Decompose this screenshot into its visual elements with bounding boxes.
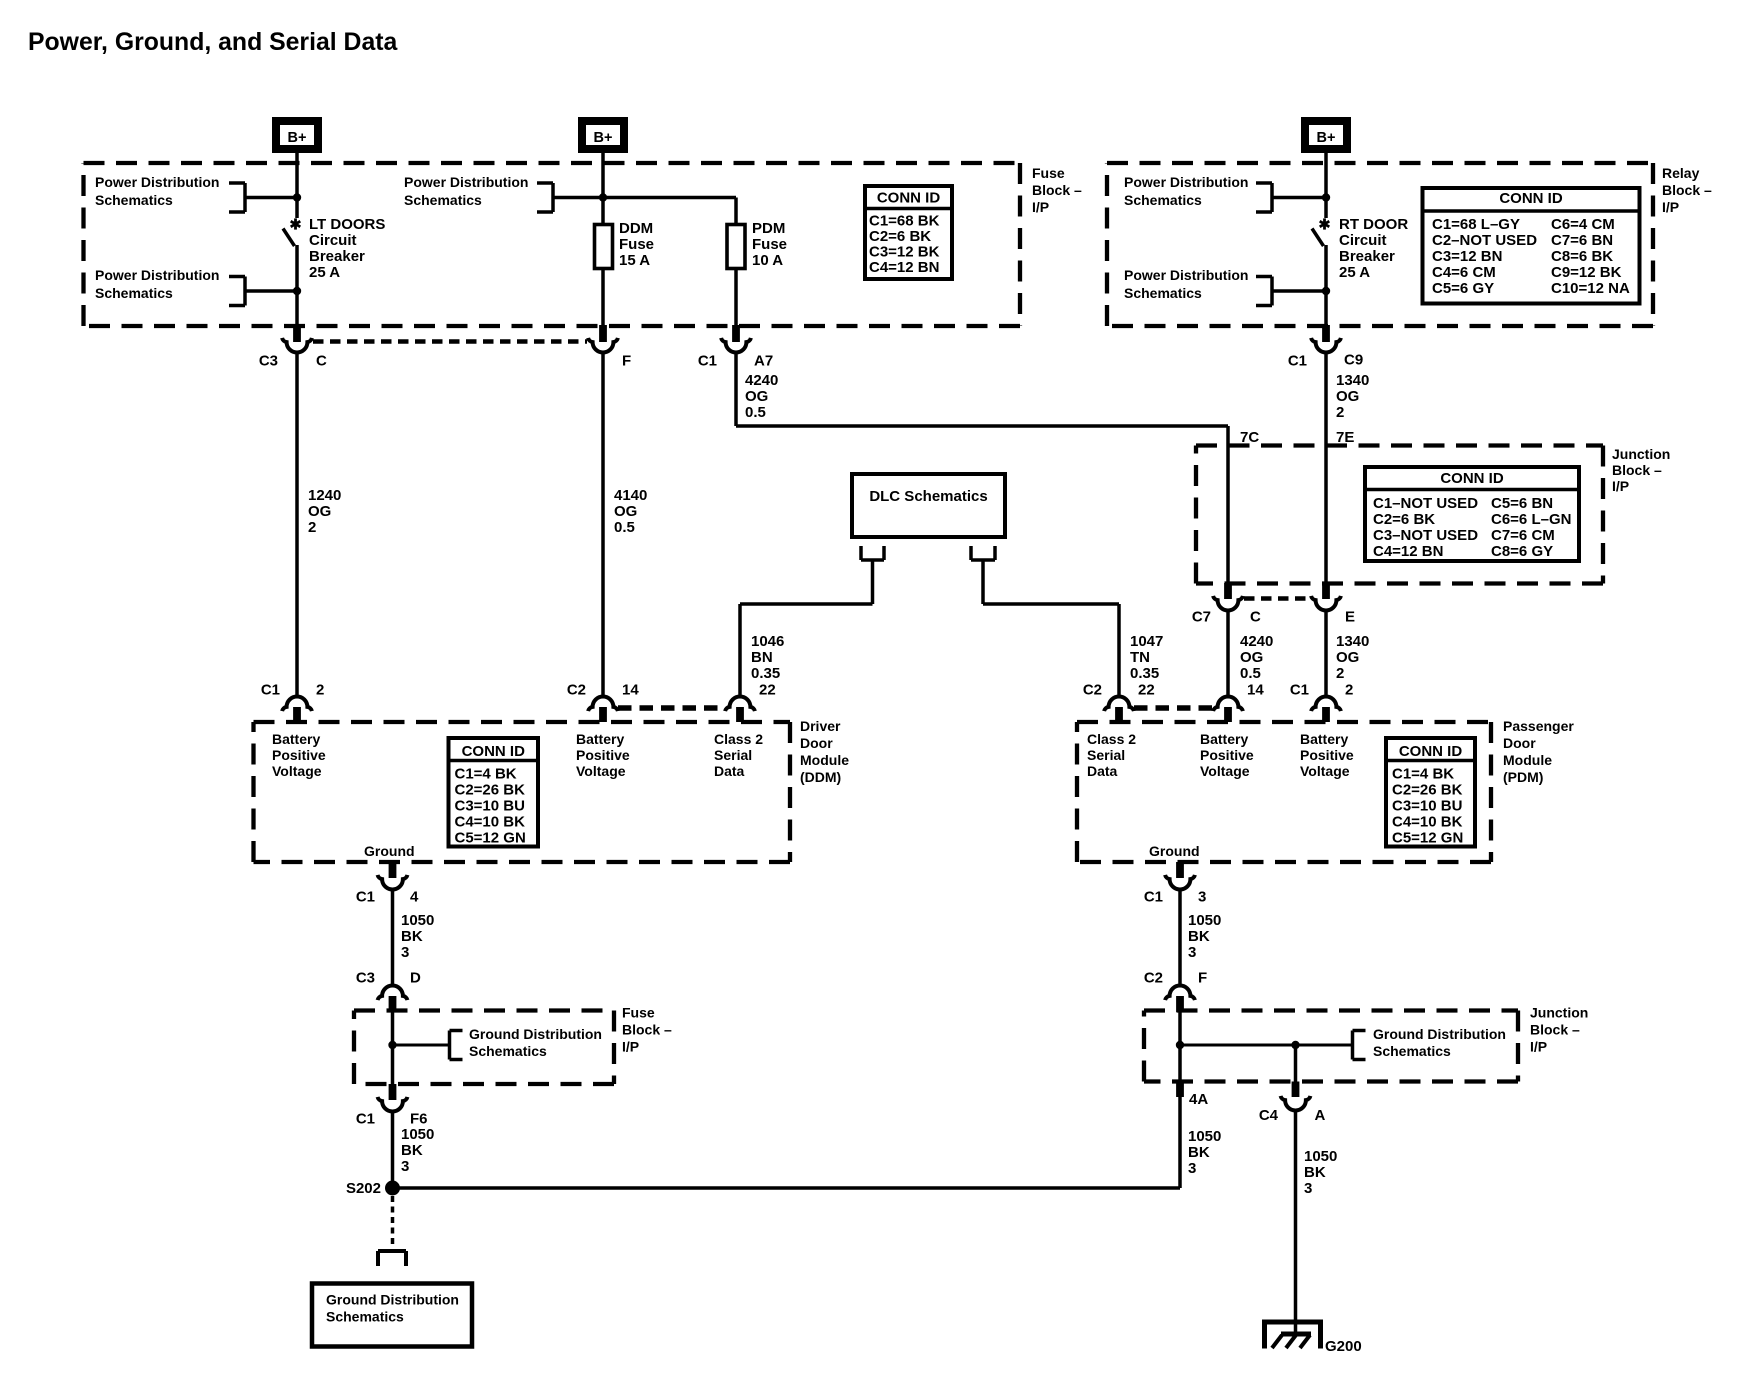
svg-text:Junction: Junction	[1612, 446, 1670, 462]
title	[28, 29, 397, 56]
svg-text:3: 3	[401, 944, 409, 961]
wire bracket3 feed line	[553, 198, 736, 225]
in-line dotted link 22 to 14 (PDM)	[1134, 705, 1213, 711]
connector C1/F6 (cup)	[378, 1097, 408, 1112]
svg-text:4140: 4140	[614, 487, 647, 504]
svg-text:Power Distribution: Power Distribution	[95, 267, 219, 283]
wire 4140 OG 0.5	[601, 353, 605, 696]
relay block label	[1662, 165, 1712, 215]
connector C1/A7 labels	[698, 353, 773, 370]
node: junction dot RT DOOR top	[1322, 193, 1330, 201]
svg-text:C2=6 BK: C2=6 BK	[869, 228, 931, 245]
connector E (stub)	[1322, 583, 1330, 599]
wire to ground distribution bracket (junction)	[1180, 1044, 1353, 1047]
svg-text:C5=12 GN: C5=12 GN	[455, 830, 526, 847]
svg-text:BN: BN	[751, 649, 773, 666]
wire B+ battery feed 2	[601, 153, 605, 163]
connector E (cup)	[1311, 596, 1341, 611]
svg-text:1240: 1240	[308, 487, 341, 504]
off-page ref: ground distribution schematics (junction block)	[1353, 1026, 1506, 1060]
wire 1340 OG 2 (lower)	[1324, 610, 1328, 696]
svg-text:Power Distribution: Power Distribution	[1124, 174, 1248, 190]
connector F (cup)	[588, 338, 618, 353]
in-line harness dotted link C to F	[313, 339, 587, 344]
wire 1046 BN 0.35 label	[751, 633, 784, 682]
svg-text:1050: 1050	[401, 1126, 434, 1143]
junction block label	[1612, 446, 1670, 494]
svg-text:Voltage: Voltage	[576, 763, 626, 779]
off-page ref: ground distribution schematics (fuse block)	[450, 1026, 602, 1060]
junction block I/P (dashed box)	[1196, 446, 1603, 584]
wire splice bus S202	[393, 1186, 1181, 1190]
svg-text:Schematics: Schematics	[326, 1309, 404, 1325]
svg-text:2: 2	[316, 682, 324, 699]
svg-text:CONN ID: CONN ID	[1499, 190, 1563, 207]
in-line dotted link 14 to 22 (DDM)	[618, 705, 725, 711]
fuse block I/P ground (dashed box)	[354, 1011, 614, 1085]
connector PDM pin 14 labels	[1247, 682, 1264, 699]
connector C1/3 (cup)	[1165, 875, 1195, 890]
svg-text:S202: S202	[346, 1180, 381, 1197]
svg-text:Circuit: Circuit	[309, 232, 357, 249]
svg-text:C1=68 L–GY: C1=68 L–GY	[1432, 216, 1520, 233]
connector DDM C2 pin 14 labels	[567, 682, 640, 699]
connector C4/A (cup)	[1281, 1096, 1311, 1111]
svg-text:3: 3	[1188, 1160, 1196, 1177]
connector F (stub)	[599, 325, 607, 342]
svg-text:2: 2	[308, 519, 316, 536]
ground G200	[1265, 1322, 1321, 1349]
svg-text:Breaker: Breaker	[309, 248, 365, 265]
DDM pin text class 2 serial data	[714, 731, 763, 779]
svg-text:Battery: Battery	[1200, 731, 1248, 747]
svg-text:C7: C7	[1192, 609, 1211, 626]
DLC schematics box	[852, 474, 1005, 537]
svg-text:C5=12 GN: C5=12 GN	[1392, 830, 1463, 847]
wire bracket2 to LT DOORS bottom	[245, 289, 297, 293]
svg-text:C10=12 NA: C10=12 NA	[1551, 280, 1630, 297]
node: junction dot junction block ground	[1176, 1041, 1184, 1049]
svg-text:C1: C1	[698, 353, 717, 370]
svg-text:1050: 1050	[1304, 1148, 1337, 1165]
connector C1/C9 (cup)	[1311, 338, 1341, 353]
wire 1047 TN 0.35 label	[1130, 633, 1163, 682]
svg-text:Serial: Serial	[1087, 747, 1125, 763]
connector C1/A7 (stub)	[732, 325, 740, 342]
svg-text:C3=12 BN: C3=12 BN	[1432, 248, 1502, 265]
svg-text:C: C	[316, 353, 327, 370]
svg-text:15 A: 15 A	[619, 252, 650, 269]
svg-text:C4=6 CM: C4=6 CM	[1432, 264, 1496, 281]
svg-text:25 A: 25 A	[309, 264, 340, 281]
svg-text:C1–NOT USED: C1–NOT USED	[1373, 495, 1478, 512]
connector DDM pin 22 (cup+stub)	[725, 696, 755, 722]
wire RT breaker to box bottom	[1324, 245, 1328, 326]
svg-text:Schematics: Schematics	[469, 1043, 547, 1059]
svg-text:C2=6 BK: C2=6 BK	[1373, 511, 1435, 528]
off-page ref: power distribution schematics (lower left)	[95, 267, 245, 306]
svg-text:Positive: Positive	[272, 747, 326, 763]
svg-text:0.5: 0.5	[1240, 665, 1261, 682]
svg-text:Power Distribution: Power Distribution	[1124, 267, 1248, 283]
svg-text:C4=10 BK: C4=10 BK	[1392, 814, 1463, 831]
svg-text:22: 22	[759, 682, 776, 699]
node: junction dot RT DOOR bottom	[1322, 287, 1330, 295]
svg-text:DLC Schematics: DLC Schematics	[869, 488, 987, 505]
svg-text:OG: OG	[1336, 388, 1359, 405]
svg-text:0.5: 0.5	[745, 404, 766, 421]
svg-text:Data: Data	[714, 763, 745, 779]
svg-text:Ground: Ground	[1149, 843, 1200, 859]
svg-text:C7=6 BN: C7=6 BN	[1551, 232, 1613, 249]
connector C1/4 (stub)	[389, 862, 397, 878]
wire B+2 down	[601, 163, 605, 198]
svg-text:C2=26 BK: C2=26 BK	[455, 782, 526, 799]
connector DDM pin 22 labels	[759, 682, 776, 699]
svg-text:BK: BK	[1188, 1144, 1210, 1161]
svg-text:2: 2	[1345, 682, 1353, 699]
svg-text:Battery: Battery	[272, 731, 320, 747]
connector 4A (stub)	[1176, 1082, 1184, 1098]
node: junction dot fuse block ground	[388, 1041, 396, 1049]
svg-text:C2–NOT USED: C2–NOT USED	[1432, 232, 1537, 249]
splice S202	[346, 1180, 400, 1197]
svg-text:Junction: Junction	[1530, 1005, 1588, 1021]
svg-text:CONN ID: CONN ID	[462, 743, 526, 760]
svg-text:CONN ID: CONN ID	[1399, 743, 1463, 760]
off-page ref: power distribution schematics (upper left)	[95, 174, 245, 212]
svg-text:A: A	[1315, 1107, 1326, 1124]
ground distribution schematics box	[312, 1284, 472, 1347]
svg-text:Fuse: Fuse	[622, 1005, 655, 1021]
svg-text:Power Distribution: Power Distribution	[404, 174, 528, 190]
svg-text:Ground: Ground	[364, 843, 415, 859]
svg-text:Relay: Relay	[1662, 165, 1700, 181]
svg-text:E: E	[1345, 609, 1355, 626]
svg-text:4240: 4240	[1240, 633, 1273, 650]
svg-text:OG: OG	[614, 503, 637, 520]
wire 4140 OG 0.5 label	[614, 487, 647, 536]
wire bracket5 to RT DOOR bottom	[1272, 289, 1326, 293]
svg-text:C2: C2	[1144, 970, 1163, 987]
svg-text:Class 2: Class 2	[714, 731, 763, 747]
svg-text:B+: B+	[288, 130, 307, 146]
svg-text:1050: 1050	[1188, 1128, 1221, 1145]
svg-text:F: F	[622, 353, 631, 370]
svg-text:Ground Distribution: Ground Distribution	[1373, 1026, 1506, 1042]
svg-text:I/P: I/P	[1530, 1039, 1547, 1055]
in-line dotted link C to E	[1244, 596, 1311, 601]
svg-text:(DDM): (DDM)	[800, 769, 841, 785]
svg-text:I/P: I/P	[1032, 199, 1049, 215]
svg-text:Door: Door	[800, 735, 833, 751]
svg-text:RT DOOR: RT DOOR	[1339, 216, 1408, 233]
wire 1240 OG 2 label	[308, 487, 341, 536]
svg-text:Positive: Positive	[1300, 747, 1354, 763]
svg-text:2: 2	[1336, 404, 1344, 421]
connector C3/C (stub)	[293, 325, 301, 342]
node label 7C	[1240, 429, 1259, 446]
svg-text:C4=10 BK: C4=10 BK	[455, 814, 526, 831]
svg-text:10 A: 10 A	[752, 252, 783, 269]
svg-text:LT DOORS: LT DOORS	[309, 216, 385, 233]
svg-text:Positive: Positive	[1200, 747, 1254, 763]
svg-text:C3: C3	[356, 970, 375, 987]
svg-text:CONN ID: CONN ID	[877, 190, 941, 207]
svg-text:C1: C1	[1290, 682, 1309, 699]
connector C1/C9 labels	[1288, 352, 1363, 370]
svg-text:Fuse: Fuse	[619, 236, 654, 253]
connector C3/D (stub)	[389, 996, 397, 1012]
svg-text:C7=6 CM: C7=6 CM	[1491, 527, 1555, 544]
svg-text:Voltage: Voltage	[272, 763, 322, 779]
svg-text:Fuse: Fuse	[752, 236, 787, 253]
svg-text:3: 3	[401, 1158, 409, 1175]
svg-text:Block –: Block –	[1662, 182, 1712, 198]
wire bracket4 to RT DOOR feed	[1272, 196, 1326, 200]
ground G200 label	[1325, 1338, 1362, 1355]
svg-text:25 A: 25 A	[1339, 264, 1370, 281]
svg-text:1050: 1050	[1188, 912, 1221, 929]
svg-text:Class 2: Class 2	[1087, 731, 1136, 747]
PDM pin text battery positive voltage 2	[1300, 731, 1354, 779]
connector PDM C2 pin 22 labels	[1083, 682, 1155, 699]
circuit breaker RT DOOR label	[1339, 216, 1408, 281]
wire 1050 BK 3 label (DDM upper)	[401, 912, 434, 961]
svg-text:1046: 1046	[751, 633, 784, 650]
wire 4240 OG 0.5 label (upper)	[745, 372, 778, 421]
connector PDM C2 pin 22 (cup+stub)	[1104, 696, 1134, 722]
svg-text:Schematics: Schematics	[404, 192, 482, 208]
wire 4240 OG 0.5 (lower)	[1226, 610, 1230, 696]
wire 1050 BK 3 (DDM upper)	[391, 889, 395, 984]
svg-text:C8=6 GY: C8=6 GY	[1491, 543, 1553, 560]
svg-text:Ground Distribution: Ground Distribution	[326, 1292, 459, 1308]
wire 1047 TN 0.35	[983, 560, 1119, 695]
wire 4240 OG 0.5 label (lower)	[1240, 633, 1273, 682]
connector PDM C1 pin 2 labels	[1290, 682, 1354, 699]
svg-text:C3=10 BU: C3=10 BU	[1392, 798, 1462, 815]
connector C1/4 (cup)	[378, 875, 408, 890]
svg-text:C1: C1	[356, 1111, 375, 1128]
svg-text:Door: Door	[1503, 735, 1536, 751]
svg-text:C9: C9	[1344, 352, 1363, 369]
svg-text:0.35: 0.35	[1130, 665, 1159, 682]
svg-text:C4: C4	[1259, 1107, 1279, 1124]
svg-text:Block –: Block –	[1032, 182, 1082, 198]
svg-text:Block –: Block –	[1530, 1022, 1580, 1038]
connector C1/3 (stub)	[1176, 862, 1184, 878]
svg-text:14: 14	[1247, 682, 1264, 699]
svg-text:Positive: Positive	[576, 747, 630, 763]
svg-text:OG: OG	[1336, 649, 1359, 666]
connector PDM pin 14 (cup+stub)	[1213, 696, 1243, 722]
svg-text:I/P: I/P	[622, 1039, 639, 1055]
svg-text:4240: 4240	[745, 372, 778, 389]
svg-text:F: F	[1198, 970, 1207, 987]
svg-text:A7: A7	[754, 353, 773, 370]
svg-text:TN: TN	[1130, 649, 1150, 666]
svg-text:Module: Module	[800, 752, 849, 768]
node: junction dot LT DOORS top	[293, 193, 301, 201]
conn id table PDM	[1384, 738, 1477, 847]
svg-text:Schematics: Schematics	[1124, 192, 1202, 208]
svg-text:G200: G200	[1325, 1338, 1362, 1355]
svg-text:Data: Data	[1087, 763, 1118, 779]
wire B+1 down	[295, 163, 299, 218]
PDM label	[1503, 718, 1574, 785]
svg-text:0.35: 0.35	[751, 665, 780, 682]
svg-text:3: 3	[1188, 944, 1196, 961]
svg-text:Circuit: Circuit	[1339, 232, 1387, 249]
junction block I/P ground (dashed box)	[1144, 1011, 1518, 1082]
svg-text:Voltage: Voltage	[1300, 763, 1350, 779]
svg-text:C5=6 GY: C5=6 GY	[1432, 280, 1494, 297]
wire 1340 OG 2 label (lower)	[1336, 633, 1369, 682]
svg-text:Breaker: Breaker	[1339, 248, 1395, 265]
DLC pin tab right	[971, 546, 995, 560]
wire DDM fuse to box bottom	[601, 268, 605, 326]
connector C1/C9 (stub)	[1322, 325, 1330, 342]
node label 4A	[1189, 1091, 1208, 1108]
wire inside junction block	[1178, 1012, 1182, 1082]
connector C4/A labels	[1259, 1107, 1326, 1124]
B+ battery feed 1	[276, 121, 318, 149]
driver door module DDM (dashed box)	[254, 722, 791, 862]
DLC pin tab left	[861, 546, 884, 560]
connector C1/F6 (stub)	[389, 1084, 397, 1100]
svg-text:4A: 4A	[1189, 1091, 1208, 1108]
DDM pin text battery positive voltage 2	[576, 731, 630, 779]
svg-text:Schematics: Schematics	[1373, 1043, 1451, 1059]
connector C3/D labels	[356, 970, 421, 987]
node: junction dot LT DOORS bottom	[293, 287, 301, 295]
svg-text:I/P: I/P	[1612, 478, 1629, 494]
wire 1050 BK 3 (PDM upper)	[1178, 889, 1182, 984]
connector C4/A (stub)	[1292, 1082, 1300, 1098]
fuse block ground label	[622, 1005, 672, 1055]
wire 1050 BK 3 label (PDM upper)	[1188, 912, 1221, 961]
DDM ground pin text	[364, 843, 415, 859]
svg-text:C2: C2	[1083, 682, 1102, 699]
conn id table fuse block	[863, 186, 954, 279]
DDM label	[800, 718, 849, 785]
wire B+3 down	[1324, 163, 1328, 218]
svg-text:C5=6 BN: C5=6 BN	[1491, 495, 1553, 512]
svg-text:Power Distribution: Power Distribution	[95, 174, 219, 190]
svg-text:1050: 1050	[401, 912, 434, 929]
relay block I/P (dashed box)	[1107, 163, 1653, 326]
svg-text:I/P: I/P	[1662, 199, 1679, 215]
svg-text:C1=4 BK: C1=4 BK	[455, 766, 517, 783]
svg-text:F6: F6	[410, 1111, 428, 1128]
svg-text:Voltage: Voltage	[1200, 763, 1250, 779]
node label 7E	[1336, 429, 1354, 446]
PDM pin text battery positive voltage 1	[1200, 731, 1254, 779]
svg-text:Block –: Block –	[1612, 462, 1662, 478]
svg-text:BK: BK	[1188, 928, 1210, 945]
wire 1340 OG 2 (C9 to 7E)	[1324, 353, 1328, 585]
connector DDM C2 pin 14 (cup+stub)	[588, 696, 618, 722]
svg-text:1340: 1340	[1336, 633, 1369, 650]
svg-text:C1: C1	[261, 682, 280, 699]
connector PDM C1 pin 2 (cup+stub)	[1311, 696, 1341, 722]
off-page ref: power distribution schematics (upper right)	[1124, 174, 1272, 212]
svg-text:1047: 1047	[1130, 633, 1163, 650]
svg-text:3: 3	[1198, 889, 1206, 906]
svg-text:C3=12 BK: C3=12 BK	[869, 244, 940, 261]
svg-text:Schematics: Schematics	[95, 192, 173, 208]
connector C2/F (stub)	[1176, 996, 1184, 1012]
svg-text:B+: B+	[1317, 130, 1336, 146]
svg-text:(PDM): (PDM)	[1503, 769, 1543, 785]
svg-text:Ground Distribution: Ground Distribution	[469, 1026, 602, 1042]
node: junction dot 4A branch	[1291, 1041, 1299, 1049]
svg-text:OG: OG	[1240, 649, 1263, 666]
connector E label	[1345, 609, 1355, 626]
wire 4240 OG 0.5 (A7 to 7C)	[736, 353, 1228, 585]
fuse DDM label	[619, 220, 654, 269]
svg-text:C4=12 BN: C4=12 BN	[1373, 543, 1443, 560]
wire PDM fuse to box bottom	[734, 268, 738, 326]
B+ battery feed 3	[1305, 121, 1347, 149]
svg-text:C3–NOT USED: C3–NOT USED	[1373, 527, 1478, 544]
wire inside fuse block	[391, 1012, 395, 1084]
fuse PDM label	[752, 220, 787, 269]
fuse block label	[1032, 165, 1082, 215]
connector C3/C (cup)	[282, 338, 312, 353]
connector F label	[622, 353, 631, 370]
svg-text:C6=6 L–GN: C6=6 L–GN	[1491, 511, 1571, 528]
wire breaker to box bottom	[295, 245, 299, 326]
svg-text:PDM: PDM	[752, 220, 785, 237]
connector C7/C (cup)	[1213, 596, 1243, 611]
wire 4A branch down	[1294, 1045, 1298, 1082]
svg-text:Block –: Block –	[622, 1022, 672, 1038]
svg-text:22: 22	[1138, 682, 1155, 699]
wire 1046 BN 0.35	[740, 560, 873, 695]
svg-text:OG: OG	[745, 388, 768, 405]
wire feed to DDM fuse	[601, 198, 605, 225]
wire bracket1 to LT DOORS feed	[245, 196, 297, 200]
off-page ref: power distribution schematics (lower right)	[1124, 267, 1272, 306]
connector C1/F6 labels	[356, 1111, 428, 1128]
svg-text:0.5: 0.5	[614, 519, 635, 536]
svg-text:C3: C3	[259, 353, 278, 370]
svg-text:C2: C2	[567, 682, 586, 699]
conn id table DDM	[447, 738, 541, 847]
PDM pin text class 2 serial data	[1087, 731, 1136, 779]
fuse DDM Fuse 15 A	[595, 225, 613, 269]
svg-text:C1=68 BK: C1=68 BK	[869, 213, 940, 230]
svg-text:C1: C1	[1144, 889, 1163, 906]
connector C1/3 labels	[1144, 889, 1207, 906]
wire 1050 BK 3 label (PDM lower)	[1188, 1128, 1221, 1177]
circuit breaker LT DOORS 25 A	[283, 218, 300, 246]
svg-text:Module: Module	[1503, 752, 1552, 768]
svg-text:Schematics: Schematics	[1124, 285, 1202, 301]
svg-text:D: D	[410, 970, 421, 987]
svg-text:Fuse: Fuse	[1032, 165, 1065, 181]
svg-text:BK: BK	[401, 1142, 423, 1159]
wire 1050 BK 3 label (to G200)	[1304, 1148, 1337, 1197]
conn id table relay block	[1421, 188, 1642, 304]
wire 1050 BK 3 (PDM lower)	[1178, 1097, 1182, 1188]
circuit breaker RT DOOR 25 A	[1312, 218, 1329, 246]
svg-text:Battery: Battery	[1300, 731, 1348, 747]
svg-text:Power, Ground, and Serial Data: Power, Ground, and Serial Data	[28, 29, 397, 56]
connector DDM C1 pin 2 (cup+stub)	[282, 697, 312, 722]
